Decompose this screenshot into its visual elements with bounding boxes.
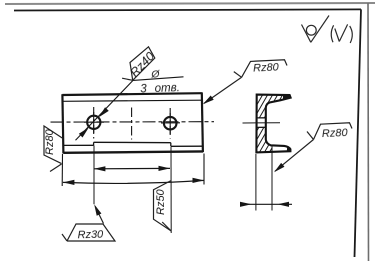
svg-text:Rz80: Rz80 [253,62,280,75]
frame outer top line (gray) [5,3,375,4]
Rz30 leader arrow [92,203,102,216]
plate bottom edge [63,151,203,152]
hole H1 (left) [87,116,100,129]
centerline cross through hole H2 [161,122,180,124]
svg-text:Ø: Ø [150,68,161,81]
bottom step left vertical [93,142,95,145]
plate inner top line [63,100,202,101]
outer dimension line [63,180,204,183]
side dimension arrow left [240,202,252,207]
side view centerline [243,122,281,124]
outer dimension arrow left [63,180,75,185]
flange tip beak top [283,95,290,99]
leader arrow upper (points down-left at hole edge) [97,107,109,119]
svg-text:Rz50: Rz50 [155,188,167,215]
bottom inner line right segment [171,145,203,147]
outer dimension arrow right [193,178,205,183]
plate top edge [62,93,201,95]
svg-text:Rz80: Rz80 [44,128,56,155]
inner dimension arrow right [159,166,171,171]
hole band line upper [257,117,266,119]
inner dimension line [94,167,170,169]
inner dimension arrow left [94,166,106,171]
plate right edge [202,92,203,152]
section hatching bottom web [225,91,310,160]
callout shelf line [133,77,184,81]
extension line left outer [61,154,63,186]
horizontal centerline [51,121,215,123]
bottom step right vertical [170,143,172,147]
svg-text:Rz30: Rz30 [77,228,104,241]
extension line side left [255,154,257,211]
flange tip beak bottom [287,146,291,151]
frame outer right line (gray) [367,3,370,261]
section hatching top flange [225,91,310,160]
extension line from hole H2 [170,147,172,233]
extension line right outer [203,154,205,185]
svg-text:Rz80: Rz80 [322,127,349,140]
channel outline [256,95,290,153]
bottom inner line left segment [63,144,94,146]
hole H2 (right) [164,117,177,130]
svg-text:3отв.: 3отв. [140,82,180,95]
vertical centerline of hole H1 [93,107,95,139]
extension line side right [271,146,273,211]
vertical centerline of hole H2 [169,108,171,139]
corner roughness symbol: check with circle [302,16,330,43]
side dimension arrow right [278,202,290,207]
Rz80 right leader arrow [272,163,284,174]
Rz80 top leader arrow [201,95,213,106]
extension line from hole H1 [93,146,95,205]
hole band line lower [257,126,266,128]
centerline cross through hole H1 [84,121,104,123]
plate left edge [62,94,63,153]
bottom inner line middle segment [94,141,171,143]
frame inner top line (black) [14,9,361,10]
corner symbol: ( check ) [331,24,352,43]
side bottom dimension line [240,203,292,205]
leader arrow lower (points up-right at hole edge) [79,126,91,138]
hole diameter leader diagonal [76,80,134,140]
vertical centerline middle [131,108,133,140]
frame inner right line (black) [355,9,362,257]
